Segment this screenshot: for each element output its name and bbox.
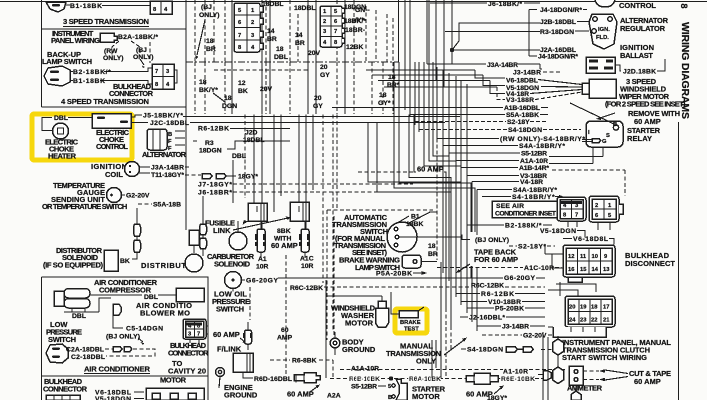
svg-text:18BK: 18BK xyxy=(406,221,423,228)
svg-text:S4A-18BR/Y*: S4A-18BR/Y* xyxy=(513,187,557,194)
svg-text:GROUND: GROUND xyxy=(224,391,258,400)
grid2 shell bottom xyxy=(553,327,606,337)
wire V4 bend xyxy=(490,81,582,94)
dashed vertical wire bundle top left xyxy=(195,0,225,62)
svg-text:S5A-18B: S5A-18B xyxy=(153,202,181,209)
arrow tape back xyxy=(459,264,470,271)
svg-text:CONNECTOR: CONNECTOR xyxy=(168,349,209,358)
svg-text:13: 13 xyxy=(603,267,610,273)
svg-text:CAVITY 20: CAVITY 20 xyxy=(168,367,206,376)
wire R6D-16DBL xyxy=(243,372,253,378)
svg-text:R6B-10BK: R6B-10BK xyxy=(349,376,380,383)
dashed branch top xyxy=(214,69,310,71)
svg-text:COIL: COIL xyxy=(105,170,123,179)
wire G6 to label xyxy=(241,279,245,281)
svg-text:J5-18BK/Y*: J5-18BK/Y* xyxy=(143,113,183,120)
wire low oil down xyxy=(232,289,234,292)
arrow BJ to bus xyxy=(197,20,205,55)
svg-text:AIR CONDITIONER: AIR CONDITIONER xyxy=(84,365,151,374)
inset divider under 3 speed transmission xyxy=(42,28,187,30)
svg-text:60 AMP: 60 AMP xyxy=(271,241,298,250)
svg-text:BR: BR xyxy=(295,40,305,47)
svg-text:R6A-10BK: R6A-10BK xyxy=(409,376,441,383)
svg-text:G6-20GY: G6-20GY xyxy=(504,275,535,282)
wire brake switch right xyxy=(421,261,437,263)
air conditioner box bottom divider xyxy=(42,375,209,377)
wire ballast J2D xyxy=(615,65,621,71)
svg-text:CONDITIONER INSET: CONDITIONER INSET xyxy=(495,211,557,218)
arrow remove-with to relay xyxy=(600,113,615,118)
svg-text:60 AMP: 60 AMP xyxy=(634,117,661,126)
svg-text:P5A-20BK: P5A-20BK xyxy=(376,271,412,278)
wire J2C from control box xyxy=(131,122,148,124)
wire J5 from control box xyxy=(131,115,142,117)
brake test connector xyxy=(399,311,418,318)
svg-text:V3-188R: V3-188R xyxy=(506,97,534,104)
svg-text:A2A: A2A xyxy=(327,393,341,400)
wire between bullets xyxy=(136,236,138,240)
svg-text:V4-18R: V4-18R xyxy=(520,179,543,186)
wire A1B14 dashes right xyxy=(552,170,625,196)
svg-text:V5-18DGN: V5-18DGN xyxy=(95,396,131,400)
wire R3 bend xyxy=(193,141,290,149)
fuse cartridge A1 xyxy=(255,221,266,258)
svg-text:CONNECTOR: CONNECTOR xyxy=(43,385,88,394)
wire 60 amp dashed xyxy=(358,171,413,173)
svg-text:S2-18Y*: S2-18Y* xyxy=(518,244,546,251)
bulkhead pin box 7 3 / 8 4 xyxy=(152,64,177,89)
svg-text:DBL: DBL xyxy=(54,115,68,122)
svg-text:A1A-10R: A1A-10R xyxy=(351,366,379,373)
svg-text:A1C: A1C xyxy=(300,256,314,263)
svg-text:18: 18 xyxy=(206,38,214,45)
wire DBL to control box xyxy=(68,117,92,119)
svg-text:2: 2 xyxy=(595,203,598,209)
wire B2 from hex to pin box xyxy=(70,68,152,72)
svg-text:BK/Y*: BK/Y* xyxy=(199,87,218,94)
svg-text:S5-12BR: S5-12BR xyxy=(521,151,547,158)
svg-text:S: S xyxy=(606,133,610,139)
svg-text:J6-18BR*: J6-18BR* xyxy=(198,190,232,197)
wire dbl to resistor xyxy=(158,294,176,296)
svg-text:J2-16DBL*: J2-16DBL* xyxy=(469,315,505,322)
svg-text:BALLAST: BALLAST xyxy=(620,51,653,60)
fusible link box 2 xyxy=(290,202,309,221)
yellow highlight box brake test xyxy=(395,309,427,333)
svg-text:R3-18DGN: R3-18DGN xyxy=(540,29,574,36)
alternator connector xyxy=(147,129,185,152)
svg-text:J2D: J2D xyxy=(245,130,258,137)
svg-text:17: 17 xyxy=(603,305,609,311)
svg-text:7: 7 xyxy=(155,69,158,75)
wire B1 from hex to pin box xyxy=(70,81,152,85)
blower plug symbol xyxy=(113,304,121,315)
svg-text:GY*: GY* xyxy=(378,100,391,107)
G6 sender symbol xyxy=(225,272,242,289)
back-up lamp switch hex connector xyxy=(44,66,70,86)
inset divider under 4 speed transmission xyxy=(42,106,187,108)
blower resistor box xyxy=(176,288,204,302)
wire A1B long xyxy=(332,107,548,109)
arrow BJ to connector xyxy=(138,338,143,342)
svg-text:8: 8 xyxy=(679,4,689,9)
svg-text:J2C-18DBL: J2C-18DBL xyxy=(150,120,189,127)
svg-text:20: 20 xyxy=(569,305,575,311)
wire C5-14DGN xyxy=(113,315,123,328)
wire V6 bend xyxy=(475,70,582,85)
svg-text:SOLENOID: SOLENOID xyxy=(214,260,251,269)
svg-text:(RW ONLY)-S4-18BR/Y*: (RW ONLY)-S4-18BR/Y* xyxy=(500,136,585,143)
svg-text:18BR-: 18BR- xyxy=(345,27,365,34)
svg-text:18GY*: 18GY* xyxy=(487,395,507,400)
instrument panel connector stub xyxy=(100,33,117,42)
svg-text:BR: BR xyxy=(267,36,277,43)
svg-text:S4-18DGN: S4-18DGN xyxy=(467,347,503,354)
svg-text:J2D.18BK: J2D.18BK xyxy=(623,69,656,76)
box SEE AIR CONDITIONER INSET xyxy=(492,201,558,218)
wire bullet to BK corner xyxy=(132,252,137,259)
svg-text:S5A-18BK: S5A-18BK xyxy=(506,112,539,119)
svg-text:C2A-18DBL: C2A-18DBL xyxy=(66,347,104,354)
wire V6-18DBL (bottom) xyxy=(134,392,144,399)
svg-text:R6C-12BK: R6C-12BK xyxy=(290,285,323,292)
junction dot starter xyxy=(389,376,393,380)
svg-text:ALTERNATOR: ALTERNATOR xyxy=(142,150,187,159)
svg-text:(BJ ONLY): (BJ ONLY) xyxy=(475,237,509,244)
vertical wires midleft continuing below bus xyxy=(233,115,313,230)
right band rule xyxy=(678,122,680,400)
svg-text:GY: GY xyxy=(313,103,323,110)
inline connector (R6E) xyxy=(466,373,498,384)
wire B2 bend xyxy=(467,224,552,226)
wire DBL blower line xyxy=(90,294,142,296)
svg-text:A1: A1 xyxy=(258,256,267,263)
svg-text:(BJ: (BJ xyxy=(136,47,147,54)
pin box 8 4 (3 speed bulkhead) xyxy=(150,1,172,14)
bulkhead disconnect grid 2 xyxy=(565,296,615,327)
wire node to J2A xyxy=(452,50,540,64)
windshield washer motor symbol xyxy=(376,301,389,327)
main diagram left border xyxy=(185,0,187,230)
svg-text:12: 12 xyxy=(238,80,246,87)
svg-text:HEATER: HEATER xyxy=(48,152,77,161)
dashed inset box around transmission switch xyxy=(327,210,433,340)
svg-text:B: B xyxy=(613,122,617,128)
svg-text:7: 7 xyxy=(334,29,337,35)
bus riser wire xyxy=(398,0,400,62)
svg-text:BLOWER MO: BLOWER MO xyxy=(140,309,190,318)
wire V4b bend xyxy=(472,181,519,183)
svg-text:DBL: DBL xyxy=(274,54,288,61)
connector plug (3 speed backup switch) xyxy=(46,2,66,12)
svg-text:R6D-16DBL: R6D-16DBL xyxy=(254,376,292,383)
solid vertical wires top xyxy=(232,0,345,62)
distributor symbol (cap and body) xyxy=(185,230,203,272)
wire DBL to blower xyxy=(99,298,111,312)
svg-text:21: 21 xyxy=(603,318,610,324)
verticals below bus xyxy=(195,62,393,114)
svg-text:3 SPEED TRANSMISSION: 3 SPEED TRANSMISSION xyxy=(63,17,149,26)
svg-text:BRAKE: BRAKE xyxy=(400,320,421,326)
svg-text:LAMP SWITCH: LAMP SWITCH xyxy=(42,57,92,66)
svg-text:R6C-12BK: R6C-12BK xyxy=(471,283,504,290)
control unit partial symbol top xyxy=(595,0,615,7)
svg-text:18GY*: 18GY* xyxy=(238,174,258,181)
nested vertical bundle right xyxy=(405,0,452,132)
svg-text:18DGN: 18DGN xyxy=(199,148,222,155)
svg-text:IGN.: IGN. xyxy=(598,27,610,33)
label 18DBL (C1) xyxy=(250,1,260,3)
second bus wire (J5 net) xyxy=(183,116,460,118)
svg-text:G: G xyxy=(602,139,607,145)
carburetor solenoid symbol xyxy=(229,232,247,250)
wire A1-10R dashed xyxy=(340,369,566,371)
svg-text:10R: 10R xyxy=(256,264,269,271)
svg-text:B1-18BK: B1-18BK xyxy=(70,3,102,10)
automatic transmission switch symbol xyxy=(384,219,420,255)
wires into grid1 xyxy=(545,244,563,268)
svg-text:20: 20 xyxy=(314,95,322,102)
wire B1 18BK pointer xyxy=(399,216,409,222)
svg-text:V6-18DBL: V6-18DBL xyxy=(506,78,538,85)
svg-text:(FOR 2 SPEED SEE INSET): (FOR 2 SPEED SEE INSET) xyxy=(605,100,686,109)
svg-text:2: 2 xyxy=(251,20,254,26)
air conditioner box border xyxy=(42,277,209,400)
alternator regulator symbol xyxy=(589,14,617,49)
bullet pair (S4) xyxy=(506,347,556,353)
svg-text:S4-18BR/Y*: S4-18BR/Y* xyxy=(512,194,555,201)
fuse cartridge A1C xyxy=(299,221,310,258)
inline bullet connector 2 xyxy=(134,240,141,252)
svg-text:R6E-10BK: R6E-10BK xyxy=(501,376,535,383)
svg-text:BR: BR xyxy=(428,251,438,258)
wires to lower right label stack xyxy=(436,139,438,260)
arrow 18BK to DGN xyxy=(213,93,225,102)
svg-text:GN--: GN-- xyxy=(355,7,370,14)
ignition coil symbol xyxy=(125,162,140,177)
svg-text:DISTRIBUT: DISTRIBUT xyxy=(141,261,186,270)
svg-text:WIRING DIAGRAMS: WIRING DIAGRAMS xyxy=(679,22,691,119)
dashed wire RW branch xyxy=(112,41,119,58)
svg-text:SWITCH: SWITCH xyxy=(48,335,76,344)
svg-text:REGULATOR: REGULATOR xyxy=(620,24,666,33)
svg-text:J4-18DGN/R*: J4-18DGN/R* xyxy=(538,54,578,61)
electric choke control box xyxy=(92,114,131,129)
svg-text:AMMETER: AMMETER xyxy=(567,384,603,393)
wire S5A xyxy=(410,114,548,116)
svg-text:18: 18 xyxy=(379,92,387,99)
four pin connector A (4 3 8 7) xyxy=(557,197,586,221)
svg-text:ONLY): ONLY) xyxy=(103,55,124,62)
wire R6 bottom dashed xyxy=(330,378,566,380)
svg-text:18: 18 xyxy=(428,243,436,250)
wire node diagonal to J2B xyxy=(452,23,540,50)
svg-text:DGN: DGN xyxy=(222,103,237,110)
svg-text:2: 2 xyxy=(323,19,326,25)
svg-text:18: 18 xyxy=(591,305,598,311)
wire S4-18DGN bullets xyxy=(461,348,466,350)
svg-text:CONTROL: CONTROL xyxy=(619,1,656,10)
svg-text:(BJ: (BJ xyxy=(201,4,212,11)
svg-text:GROUND: GROUND xyxy=(342,345,376,354)
svg-text:B2-188K/*: B2-188K/* xyxy=(505,223,542,230)
svg-text:60 AMP: 60 AMP xyxy=(634,377,661,386)
svg-text:FOR 60 AMP: FOR 60 AMP xyxy=(474,255,518,264)
wires between grids xyxy=(548,282,596,296)
svg-text:A1B-16DBL: A1B-16DBL xyxy=(504,105,540,112)
svg-text:14: 14 xyxy=(295,32,303,39)
svg-text:CONTROL: CONTROL xyxy=(96,142,128,151)
svg-text:MOTOR: MOTOR xyxy=(160,376,187,385)
wire J3A bus xyxy=(427,64,542,69)
wire bullets to 18GY label xyxy=(226,175,236,177)
relay feed diagonal xyxy=(549,103,614,164)
wire V5 bend xyxy=(483,75,582,87)
bottom left connector grid xyxy=(46,395,80,400)
wire from temp unit down with inline connectors xyxy=(136,208,138,224)
wire coil to J3A label xyxy=(140,166,150,168)
svg-text:J3-14BR: J3-14BR xyxy=(502,324,529,331)
svg-text:MOTOR: MOTOR xyxy=(345,319,374,328)
svg-text:14: 14 xyxy=(267,28,275,35)
svg-text:START SWITCH WIRING: START SWITCH WIRING xyxy=(562,353,647,362)
wire J3-14BR dashes xyxy=(543,71,560,73)
svg-text:J3A-14BR: J3A-14BR xyxy=(151,165,184,172)
svg-text:20: 20 xyxy=(320,64,328,71)
four pin connector B (2 1 6 5) xyxy=(589,196,623,222)
wire coil to T11 label xyxy=(139,172,150,174)
wire S2 bend xyxy=(415,121,548,123)
svg-text:DBL: DBL xyxy=(232,153,246,160)
svg-text:B2-18BK/*: B2-18BK/* xyxy=(73,69,111,76)
svg-text:AMP: AMP xyxy=(277,335,293,342)
engine ground ring terminal xyxy=(216,368,225,389)
svg-text:DBL: DBL xyxy=(144,294,158,301)
inline bullet connector 1 xyxy=(134,224,141,236)
wiper motor symbol xyxy=(582,79,616,98)
svg-text:20V: 20V xyxy=(308,50,321,57)
wire temp to G2 label xyxy=(121,194,125,196)
svg-text:DISCONNECT: DISCONNECT xyxy=(625,259,675,268)
svg-text:RELAY: RELAY xyxy=(627,134,652,143)
connector C2 (8 pin) xyxy=(320,6,345,47)
body ground ring terminal xyxy=(330,332,340,355)
svg-text:J6-18BK/*: J6-18BK/* xyxy=(488,1,522,8)
wire R3 long xyxy=(445,31,540,33)
svg-text:F: F xyxy=(168,139,172,145)
svg-text:MOTOR: MOTOR xyxy=(412,392,440,400)
wire windshield washer feed xyxy=(326,280,382,378)
wire S4A bend xyxy=(443,145,518,147)
svg-text:22: 22 xyxy=(591,318,597,324)
nested L corner wires center xyxy=(368,62,475,232)
wire brake test stub xyxy=(391,292,399,314)
svg-text:P5-20BK: P5-20BK xyxy=(495,306,524,313)
svg-text:DBL: DBL xyxy=(72,313,86,320)
wire A1A bend xyxy=(456,160,519,162)
wire to B1-18BK label xyxy=(66,4,70,6)
ignition ballast symbol xyxy=(586,57,615,73)
svg-text:BK: BK xyxy=(120,258,130,265)
svg-text:B: B xyxy=(168,132,172,138)
svg-text:10R: 10R xyxy=(301,263,314,270)
starter motor terminal block xyxy=(388,379,407,400)
svg-text:11: 11 xyxy=(580,254,587,260)
wire ammeter down grommet xyxy=(575,385,577,391)
svg-text:G2-20V: G2-20V xyxy=(126,193,150,200)
svg-text:SEE AIR: SEE AIR xyxy=(496,203,524,210)
node junction xyxy=(450,48,454,52)
svg-text:15: 15 xyxy=(580,267,587,273)
wire S4b bend + arrow xyxy=(482,196,560,198)
wire switch to right xyxy=(399,236,461,238)
svg-text:J2B-18DBL: J2B-18DBL xyxy=(540,19,576,26)
fusible link box (engine) xyxy=(233,353,253,372)
svg-text:7: 7 xyxy=(238,33,241,39)
svg-text:(RW: (RW xyxy=(104,48,118,55)
svg-text:S4-18DGN: S4-18DGN xyxy=(508,127,542,134)
wire bracket DBL to heater xyxy=(42,118,52,131)
dashed path with inline connector (BJ) xyxy=(105,349,155,356)
fuse cartridge (60amp) xyxy=(243,322,253,350)
svg-text:19: 19 xyxy=(580,305,587,311)
inset left border line xyxy=(41,0,43,107)
svg-text:A1A-10R: A1A-10R xyxy=(520,158,548,165)
compressor symbol xyxy=(54,289,90,309)
svg-text:18: 18 xyxy=(199,79,207,86)
svg-text:A1B-14R*: A1B-14R* xyxy=(519,165,549,172)
svg-text:J7-18GY*: J7-18GY* xyxy=(198,182,232,189)
svg-text:7: 7 xyxy=(575,213,578,219)
wire S5A dashes xyxy=(138,203,152,205)
dashed wire BJ branch xyxy=(131,41,140,56)
brake warning lamp switch symbol xyxy=(402,255,421,268)
svg-text:LINK: LINK xyxy=(213,226,231,235)
svg-text:10: 10 xyxy=(592,254,598,260)
svg-text:C2-18DBL: C2-18DBL xyxy=(71,354,105,361)
svg-text:/Y*: /Y* xyxy=(355,17,364,24)
svg-text:PANEL WIRING: PANEL WIRING xyxy=(51,36,100,45)
svg-text:V6-18D8L: V6-18D8L xyxy=(573,236,608,243)
bulkhead grid 4 8 / 3 7 (ac) xyxy=(183,319,208,343)
svg-text:B2A-18BK/*: B2A-18BK/* xyxy=(118,34,158,41)
distributor solenoid box xyxy=(104,250,118,271)
svg-text:23: 23 xyxy=(580,318,587,324)
wire S4Ab bend xyxy=(477,189,512,191)
svg-text:F/LINK: F/LINK xyxy=(217,345,242,354)
svg-text:A1-10R: A1-10R xyxy=(503,369,528,376)
svg-text:J4-18DGN/R*: J4-18DGN/R* xyxy=(540,7,582,14)
svg-text:BK: BK xyxy=(238,88,248,95)
svg-text:BR: BR xyxy=(206,46,216,53)
svg-text:ONLY): ONLY) xyxy=(199,12,220,19)
svg-text:C5-14DGN: C5-14DGN xyxy=(126,326,163,333)
svg-text:B: B xyxy=(388,395,392,400)
wire J6 top xyxy=(430,2,540,4)
svg-text:G6-20GY: G6-20GY xyxy=(246,278,278,285)
nested corner bundle verticals (lower) xyxy=(437,67,467,176)
svg-text:R6-8BK: R6-8BK xyxy=(292,358,317,365)
svg-text:R6-12BK: R6-12BK xyxy=(481,291,514,298)
yellow highlight box electric choke xyxy=(32,114,132,160)
fusible link box 1 xyxy=(248,203,267,221)
svg-text:T11-18GY*: T11-18GY* xyxy=(151,172,184,179)
temperature sending unit symbol xyxy=(107,188,122,203)
svg-text:BR*: BR* xyxy=(387,82,400,89)
wire RW bend xyxy=(437,138,499,140)
wire compressor DBL bracket xyxy=(64,308,99,312)
low pressure switch hex xyxy=(46,344,68,363)
